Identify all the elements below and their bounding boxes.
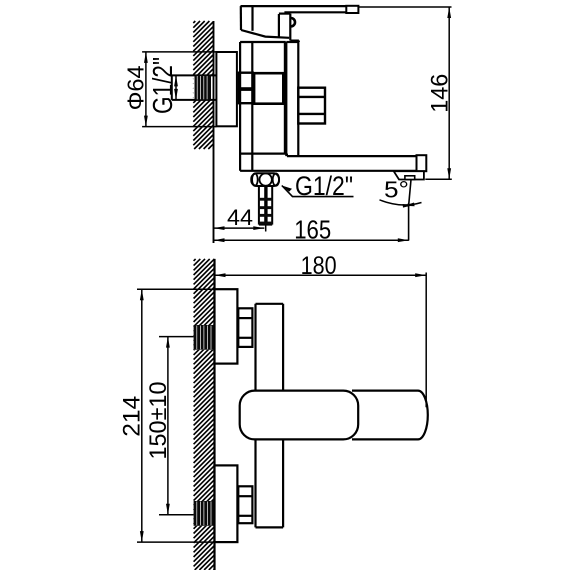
lower inlet nut xyxy=(238,486,252,523)
connector nuts between escutcheon and body xyxy=(239,73,253,89)
dimension 44 xyxy=(214,227,265,229)
svg-text:44: 44 xyxy=(227,205,253,230)
dimension 150+-10 extension lines xyxy=(159,336,194,338)
svg-text:146: 146 xyxy=(426,74,453,113)
G1/2 leader (shower outlet) xyxy=(282,186,354,197)
wall section hatch (top view) xyxy=(193,21,213,149)
svg-text:5°: 5° xyxy=(384,176,409,202)
upper inlet thread (in wall) xyxy=(194,325,215,350)
dimension 146 xyxy=(448,7,450,179)
svg-text:180: 180 xyxy=(301,252,337,280)
lower escutcheon (bottom view) xyxy=(215,465,238,542)
body right column xyxy=(285,42,287,156)
wall section hatch (bottom view) xyxy=(194,259,215,570)
upper inlet nut xyxy=(238,308,252,347)
dimension 214 xyxy=(141,289,143,542)
phi64 extension lines xyxy=(142,51,216,53)
5 degree angle annotation xyxy=(409,180,412,207)
svg-text:G1/2": G1/2" xyxy=(295,171,353,201)
dimension 214 extension lines xyxy=(137,288,215,290)
body bottom cap xyxy=(240,153,286,155)
aerator under spout tip xyxy=(394,171,424,179)
wall face line (bottom view) xyxy=(213,259,215,570)
svg-text:Φ64: Φ64 xyxy=(123,65,149,110)
lower inlet thread (in wall) xyxy=(194,501,215,526)
svg-text:214: 214 xyxy=(119,396,146,437)
upper escutcheon (bottom view) xyxy=(215,289,238,363)
shower hose nipple with ridges xyxy=(259,186,272,225)
svg-text:G1/2": G1/2" xyxy=(147,57,178,114)
nipple thread section (dark) xyxy=(195,75,212,100)
pivot pin arc xyxy=(291,18,295,26)
mixer body (bottom view, rounded) xyxy=(240,391,359,440)
handle (bottom view, behind body) xyxy=(352,391,428,440)
svg-text:150±10: 150±10 xyxy=(145,382,172,460)
handle body (top view) xyxy=(240,6,242,30)
dimension 180 xyxy=(215,274,427,276)
svg-text:165: 165 xyxy=(294,215,331,245)
dimension 150+-10 xyxy=(167,337,169,515)
wall face line (top view) with dim extension xyxy=(213,21,215,243)
handle pivot dome xyxy=(278,14,280,37)
escutcheon (top view) xyxy=(216,52,237,126)
faucet body (top view) xyxy=(240,41,286,43)
180 right extension line xyxy=(425,273,427,408)
handle bar end cap xyxy=(346,6,358,13)
inlet nipple (top view) xyxy=(172,74,217,76)
dimension 146 extension lines xyxy=(358,6,451,8)
spout (top view) xyxy=(287,155,417,157)
cartridge square on body xyxy=(254,73,283,104)
body back plate (bottom view) xyxy=(256,303,284,305)
hose nipple centre extension tick xyxy=(265,225,267,232)
dimension G1/2 (inlet) xyxy=(175,75,177,100)
base step lines under handle xyxy=(290,40,299,42)
dimension phi64 xyxy=(145,52,147,126)
shower hose nut (bottom of body) xyxy=(251,173,279,186)
handle lever bar (top view) xyxy=(241,5,347,7)
diverter knob (right side) xyxy=(298,88,325,124)
dimension 165 xyxy=(214,239,409,241)
spout end cap xyxy=(417,155,427,171)
